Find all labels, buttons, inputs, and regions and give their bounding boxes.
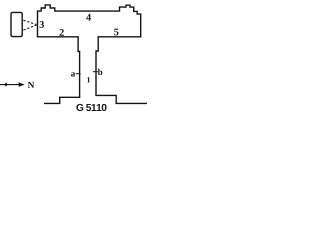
serdab rectangle xyxy=(11,12,22,36)
sight line lower (dashed) xyxy=(23,25,36,30)
label 4 xyxy=(86,14,91,21)
north arrow fletching diamond xyxy=(5,82,8,86)
label 1 xyxy=(87,77,90,82)
tick a on west corridor wall xyxy=(76,73,81,75)
label 2 xyxy=(60,29,64,36)
north arrow head xyxy=(19,82,25,86)
north arrow line xyxy=(0,84,22,86)
chapel outline of mastaba G 5110 xyxy=(38,5,148,104)
label a xyxy=(71,72,75,76)
label 5 xyxy=(114,29,118,36)
caption G 5110 xyxy=(76,104,106,111)
label b xyxy=(98,69,103,75)
label N xyxy=(28,82,34,88)
sight line upper (dashed) xyxy=(23,20,36,24)
label 3 xyxy=(40,21,44,28)
tick b on east corridor wall xyxy=(93,71,98,73)
